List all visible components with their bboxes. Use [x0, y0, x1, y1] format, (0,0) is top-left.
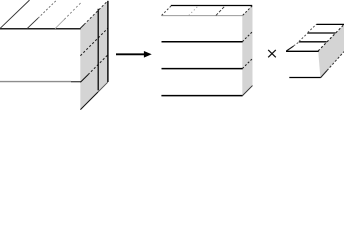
input tensor: right side face (gray parallelogram): [80, 1, 108, 110]
row-strip tensor: left depth edge, dashed segment 1: [294, 42, 299, 46]
row-strip tensor: right side face (gray, cropped at image edge): [318, 25, 344, 78]
input tensor: top face division 1, solid lower part: [27, 18, 38, 29]
row-strip tensor: top-left gray boundary (dashed diagonal): [318, 25, 343, 51]
row-sliced tensor: row division line 1: [162, 41, 243, 43]
row-sliced tensor: front bottom edge: [161, 95, 242, 97]
row-sliced tensor: bottom-right depth edge (solid thin): [243, 86, 253, 96]
input tensor: top-left depth edge (solid): [0, 0, 29, 28]
row-sliced tensor: row division line 2: [162, 68, 243, 70]
row-sliced tensor: row 2 side diagonal (dashed): [242, 59, 252, 69]
arrow shaft: [116, 53, 146, 55]
row-strip tensor: bottom depth edge, dashed part: [327, 52, 344, 71]
row-sliced tensor: row 1 side diagonal (dashed): [242, 32, 252, 42]
row-sliced tensor: top face column division 2 (dark, long dashes): [216, 6, 225, 16]
input tensor: side face row division 2, dashed part: [88, 55, 108, 75]
input tensor: side face row division 1 (dashed diagonal): [80, 28, 107, 55]
multiply sign: [268, 50, 276, 57]
row-sliced tensor: top-right depth edge (dashed): [243, 6, 253, 16]
input tensor: side face bottom depth edge (solid): [80, 92, 98, 110]
input tensor: side face back-right vertical edge: [107, 1, 109, 82]
row-strip tensor: left depth edge, solid near corner: [286, 46, 293, 51]
input tensor: top-right depth edge, dashed: [84, 1, 107, 24]
input tensor: top face division 2, faint lower part: [55, 19, 64, 28]
input tensor: front bottom edge (soft gray): [0, 81, 71, 83]
row-sliced tensor: front top edge (light): [161, 15, 242, 17]
input tensor: side face row division 2, solid stub: [80, 75, 88, 83]
row-strip tensor: left depth edge, dashed segment 2: [299, 33, 308, 41]
input tensor: top face division 2, dashed upper part: [64, 3, 81, 20]
input tensor: side face channel division vertical: [97, 9, 99, 91]
row-strip tensor: depth strip line 2: [308, 32, 336, 34]
row-strip tensor: depth strip line 1: [299, 41, 327, 43]
row-sliced tensor: top-left depth edge (dashed): [162, 6, 172, 16]
row-sliced tensor: back top edge: [171, 5, 252, 7]
input tensor: top-right depth edge, solid stub: [80, 25, 84, 29]
row-strip tensor: back top edge: [317, 23, 344, 25]
row-strip tensor: left depth edge, dashed segment 3: [308, 24, 317, 32]
row-strip tensor: front top edge: [286, 50, 319, 52]
row-strip tensor: front bottom edge: [289, 77, 320, 79]
arrow head: [144, 51, 152, 58]
row-sliced tensor: right side face (gray strip): [242, 6, 252, 96]
row-strip tensor: bottom depth edge, solid near corner: [321, 71, 328, 78]
input tensor: top face division 1, dashed upper part: [38, 0, 57, 18]
input tensor: front top edge: [0, 28, 81, 30]
row-sliced tensor: top face column division 1 (dotted): [189, 6, 199, 16]
